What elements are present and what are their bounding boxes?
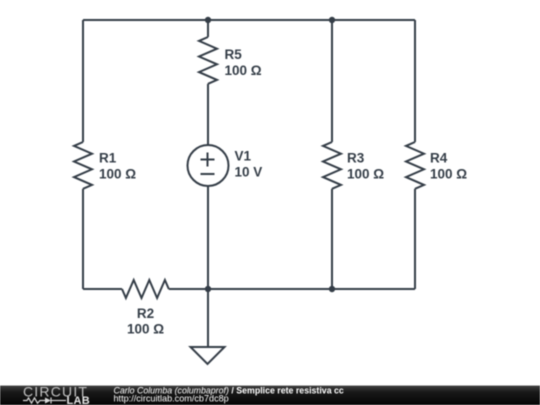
svg-text:100 Ω: 100 Ω [430, 167, 467, 182]
wire R3 bottom lead [331, 189, 333, 289]
svg-text:100 Ω: 100 Ω [347, 167, 384, 182]
wire left rail lower lead from R1 [82, 189, 84, 289]
svg-text:R5: R5 [225, 47, 243, 62]
resistor R3 [323, 142, 341, 189]
resistor R5 [199, 37, 217, 84]
wire R5 top lead [207, 20, 209, 37]
wire R4 top lead [414, 20, 416, 142]
svg-text:100 Ω: 100 Ω [99, 167, 136, 182]
svg-text:http://circuitlab.com/cb7dc8p: http://circuitlab.com/cb7dc8p [114, 394, 229, 404]
svg-text:R4: R4 [430, 151, 448, 166]
svg-text:100 Ω: 100 Ω [127, 322, 164, 337]
wire V1 bottom to bottom rail [207, 186, 209, 289]
wire left rail upper lead to R1 [82, 20, 84, 142]
node junction bottom-center [205, 286, 211, 292]
svg-text:100 Ω: 100 Ω [225, 63, 262, 78]
wire ground lead [207, 289, 209, 347]
wire R3 top lead [331, 20, 333, 142]
svg-text:V1: V1 [235, 149, 252, 164]
ground [191, 347, 225, 364]
CircuitLab logo resistor-diode squiggle [23, 398, 66, 404]
svg-text:R3: R3 [347, 151, 365, 166]
wire bottom-left segment to R2 [83, 288, 122, 290]
wire R5 to V1 [207, 84, 209, 145]
wire R4 bottom lead [414, 189, 416, 289]
voltage source V1 [188, 145, 229, 186]
node junction bottom-right [329, 286, 335, 292]
wire top rail [83, 19, 415, 21]
resistor R1 [74, 142, 92, 189]
svg-text:R2: R2 [137, 306, 154, 321]
svg-text:R1: R1 [99, 151, 117, 166]
node junction top-right [329, 17, 335, 23]
node junction top-center [205, 17, 211, 23]
wire bottom rail from R2 to right corner [169, 288, 415, 290]
resistor R4 [406, 142, 424, 189]
svg-text:10 V: 10 V [235, 165, 263, 180]
svg-text:LAB: LAB [67, 395, 91, 405]
resistor R2 [122, 280, 169, 298]
